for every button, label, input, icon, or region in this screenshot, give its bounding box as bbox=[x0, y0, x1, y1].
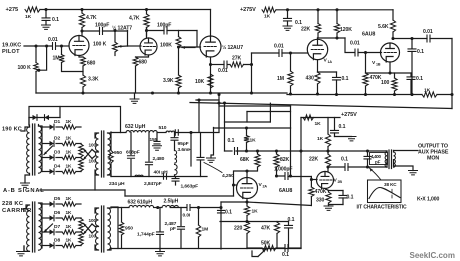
svg-text:4,250: 4,250 bbox=[222, 173, 234, 179]
svg-text:1B: 1B bbox=[376, 63, 381, 67]
wire drop to V2A input bbox=[224, 103, 226, 151]
wire plate V2A bbox=[245, 169, 248, 177]
wire row D6 bbox=[42, 217, 81, 219]
resistor R4 1M grid bbox=[53, 46, 84, 72]
triode V2 second pilot amp bbox=[140, 38, 157, 55]
junction plate node stage1 bbox=[80, 29, 83, 32]
junction bbox=[256, 149, 259, 152]
junction bbox=[156, 206, 159, 209]
resistor 1K row D1 bbox=[62, 119, 76, 129]
resistor R25 68K bbox=[240, 151, 260, 167]
junction bbox=[450, 93, 453, 96]
resistor R17 1M grid V1A bbox=[277, 53, 293, 94]
capacitor 4250pF bbox=[197, 133, 234, 180]
wire cathode V2A bbox=[246, 199, 248, 207]
svg-text:0.01: 0.01 bbox=[350, 41, 360, 47]
resistor R2 4.7K plate load bbox=[79, 10, 96, 37]
svg-text:0.01: 0.01 bbox=[48, 37, 58, 43]
resistor 1K row D4 bbox=[62, 164, 76, 174]
svg-text:4.7K: 4.7K bbox=[86, 15, 97, 21]
svg-text:95pF: 95pF bbox=[178, 141, 189, 147]
resistor 1K row D3 bbox=[62, 150, 76, 160]
junction plate node stage2 bbox=[145, 29, 148, 32]
resistor 1K row D2 bbox=[62, 136, 76, 146]
wire output top line bbox=[301, 150, 386, 152]
annotation 1/T label bbox=[357, 205, 408, 211]
ground bbox=[324, 205, 333, 211]
wire drop x191 bbox=[190, 133, 192, 167]
junction bbox=[286, 8, 289, 11]
wire long return line bbox=[190, 103, 452, 109]
ground bbox=[17, 252, 26, 256]
svg-text:632 UμH: 632 UμH bbox=[125, 124, 146, 130]
capacitor C8 0.01 coupling bbox=[350, 41, 360, 57]
capacitor C14 0.1 coupling bbox=[228, 138, 238, 155]
junction bbox=[366, 149, 369, 152]
triode V3 cathode follower bbox=[200, 36, 221, 57]
capacitor C1 0.1 B+ bypass bbox=[42, 10, 59, 26]
annotation peak mark bbox=[391, 189, 393, 198]
svg-text:5.6K: 5.6K bbox=[378, 24, 389, 30]
wire V2A input line bbox=[225, 150, 233, 152]
svg-text:608pF: 608pF bbox=[126, 150, 140, 156]
svg-text:22K: 22K bbox=[309, 157, 319, 163]
svg-text:47K: 47K bbox=[261, 226, 271, 232]
wire row D3 bbox=[42, 157, 81, 159]
wire bus drop to filter bbox=[218, 95, 220, 133]
svg-text:3.9K: 3.9K bbox=[163, 78, 174, 84]
svg-text:3.3K: 3.3K bbox=[88, 77, 99, 83]
svg-text:D3: D3 bbox=[54, 150, 60, 156]
capacitor 2480 bbox=[146, 133, 165, 177]
junction bbox=[223, 101, 226, 104]
resistor R13 27K bbox=[230, 56, 244, 68]
wire after cap bbox=[191, 207, 221, 209]
wire to riser bbox=[288, 247, 301, 249]
center tap arrow bbox=[44, 146, 53, 155]
resistor R28 220 bbox=[234, 222, 250, 234]
resistor R12 10K cathode bbox=[195, 74, 213, 88]
junction plate node V1B bbox=[391, 37, 394, 40]
svg-text:22K: 22K bbox=[301, 27, 311, 33]
capacitor 95pF bbox=[171, 133, 189, 148]
svg-text:0.1: 0.1 bbox=[52, 17, 59, 23]
svg-text:510: 510 bbox=[159, 125, 167, 131]
svg-text:K•X 1,000: K•X 1,000 bbox=[417, 197, 440, 203]
wire cathode node right bbox=[247, 221, 289, 223]
wire cathode V1A bbox=[317, 60, 319, 72]
wire C11 to right edge bbox=[430, 39, 452, 95]
tube label 6AU8 lower bbox=[279, 188, 292, 194]
wire left tie bbox=[117, 208, 119, 249]
transformer T4 secondary bbox=[108, 208, 111, 250]
transformer T3 core bbox=[33, 202, 35, 252]
wire wiper junction2 bbox=[92, 224, 95, 233]
wire plate V1A up bbox=[318, 38, 346, 39]
svg-text:1,663pF: 1,663pF bbox=[181, 184, 199, 190]
svg-text:27K: 27K bbox=[232, 56, 242, 62]
resistor R27 1K cathode bbox=[244, 206, 258, 216]
triode V1 first pilot amp bbox=[69, 36, 89, 56]
svg-text:470K: 470K bbox=[315, 189, 327, 195]
wire filter1 ground line bbox=[111, 176, 207, 178]
svg-text:1,744pF: 1,744pF bbox=[137, 232, 155, 238]
wire riser x221 bbox=[220, 202, 222, 249]
wire pilot input bbox=[24, 45, 52, 47]
wiper arrow 50K bbox=[252, 250, 266, 257]
resistor R31 1K supply V2B bbox=[317, 118, 331, 152]
svg-text:0.01: 0.01 bbox=[218, 68, 228, 74]
tube label V1B bbox=[372, 60, 381, 67]
svg-text:1M: 1M bbox=[202, 227, 209, 233]
diode D7 bbox=[50, 224, 61, 235]
wire cathode node bbox=[366, 72, 412, 74]
capacitor C7 0.01 coupling to V1A bbox=[274, 44, 284, 57]
junction bbox=[335, 93, 338, 96]
junction bbox=[197, 206, 200, 209]
junction bbox=[316, 92, 319, 95]
svg-text:0.1: 0.1 bbox=[228, 138, 235, 144]
svg-text:470K: 470K bbox=[370, 75, 382, 81]
resistor R32 22K plate V2B bbox=[309, 151, 331, 167]
node 190KC label bbox=[2, 127, 22, 133]
capacitor C4 100pF feedback bbox=[157, 23, 171, 35]
transformer T5 secondary bbox=[394, 151, 396, 168]
wire up to V1A grid line bbox=[252, 53, 280, 65]
wire plate to C2 bbox=[82, 30, 100, 32]
wire C15 to V2B grid bbox=[288, 177, 311, 180]
svg-text:120K: 120K bbox=[340, 27, 352, 33]
capacitor C13 0.1 mid bypass bbox=[331, 118, 352, 137]
capacitor 2487pF bbox=[165, 208, 185, 249]
wire carrier input bbox=[22, 205, 30, 209]
wire corner down to grid V3 bbox=[160, 31, 201, 49]
wire top B+ rail right bbox=[276, 9, 393, 11]
svg-text:19.0KC: 19.0KC bbox=[2, 43, 21, 49]
pentode V2B bbox=[317, 172, 334, 189]
wire cathode V2 bbox=[136, 55, 149, 93]
capacitor C15 1000pF coupling bbox=[274, 167, 292, 180]
svg-text:D6: D6 bbox=[54, 210, 60, 216]
wire mid B+ rail bbox=[301, 117, 340, 119]
transformer T2 secondary bbox=[108, 133, 111, 175]
svg-text:100K: 100K bbox=[160, 43, 172, 49]
svg-text:82K: 82K bbox=[280, 157, 290, 163]
inductor 234uH bbox=[109, 175, 143, 187]
svg-text:MON: MON bbox=[427, 156, 439, 162]
junction bbox=[60, 44, 63, 47]
tube label V2B bbox=[334, 178, 343, 185]
transformer T3 secondary bbox=[39, 203, 42, 250]
wire C4 to corner bbox=[167, 30, 197, 32]
capacitor C11 0.01 output coupling bbox=[423, 29, 433, 42]
junction plate node V2B bbox=[326, 165, 329, 168]
wire row D7 bbox=[42, 231, 81, 233]
wiper arrow bbox=[37, 44, 48, 71]
wire C7 to grid V1A bbox=[282, 52, 308, 54]
wire signal line to V2A grid bbox=[125, 190, 234, 196]
svg-text:632 610μH: 632 610μH bbox=[128, 200, 153, 206]
wire output lead bbox=[394, 150, 419, 152]
wire step connector 2 bbox=[225, 103, 291, 122]
svg-text:950: 950 bbox=[114, 150, 122, 156]
svg-text:1,000pF: 1,000pF bbox=[274, 167, 292, 173]
resistor 950 shunt bbox=[109, 133, 123, 177]
junction bbox=[245, 220, 248, 223]
svg-text:2,480: 2,480 bbox=[153, 156, 165, 162]
node +275V mid label bbox=[341, 112, 357, 118]
junction bbox=[81, 91, 84, 94]
junction bbox=[410, 93, 413, 96]
junction bbox=[151, 91, 154, 94]
svg-text:D5: D5 bbox=[54, 196, 60, 202]
wire carrier to V2B bbox=[247, 202, 311, 206]
svg-text:1K: 1K bbox=[66, 224, 73, 229]
resistor 1K row D6 bbox=[62, 210, 76, 220]
resistor R1 1K B+ feed bbox=[25, 7, 40, 20]
capacitor C10 0.1 to bus bbox=[408, 39, 424, 95]
svg-text:SeekIC.com: SeekIC.com bbox=[410, 251, 455, 260]
svg-text:0.01: 0.01 bbox=[274, 44, 284, 50]
wire secondary bus bbox=[41, 127, 43, 172]
wire secondary bus2 bbox=[39, 203, 43, 248]
junction bbox=[299, 149, 302, 152]
junction bbox=[217, 93, 220, 96]
svg-text:2B: 2B bbox=[338, 180, 343, 184]
svg-text:1K: 1K bbox=[66, 164, 73, 169]
wire bbox=[246, 216, 248, 222]
junction bbox=[34, 44, 37, 47]
wire to grid of V2 bbox=[128, 45, 142, 47]
ground arrow demod2 bbox=[44, 224, 53, 232]
inductor 510 series bbox=[159, 125, 175, 132]
svg-text:1K: 1K bbox=[424, 88, 431, 94]
capacitor filter 155 bbox=[150, 133, 161, 144]
svg-text:1K: 1K bbox=[317, 136, 324, 142]
potentiometer R3 100K gain bbox=[93, 31, 117, 56]
capacitor 608pF bbox=[126, 133, 140, 177]
wire bus to right edge corner bbox=[437, 95, 452, 109]
potentiometer 100 upper bbox=[79, 143, 97, 158]
value box 4400pF bbox=[370, 153, 388, 165]
potentiometer 100 upper2 bbox=[79, 218, 97, 232]
resistor R20 470K bbox=[363, 73, 382, 95]
tube label V1A bbox=[324, 58, 333, 65]
wire grid resistor drop bbox=[365, 53, 367, 74]
wire upper step line bbox=[196, 98, 219, 132]
wire supply line corner down bbox=[211, 128, 214, 159]
wire secondary taps bbox=[39, 126, 43, 127]
resistor R8 4.7K plate load bbox=[129, 10, 149, 37]
resistor R34 330 cathode bbox=[316, 191, 331, 205]
potentiometer R9 100K bbox=[176, 37, 195, 50]
wire carrier filter line bbox=[111, 207, 186, 209]
wire node line bbox=[236, 150, 301, 152]
transformer T2 primary bbox=[95, 133, 99, 175]
junction bbox=[289, 51, 292, 54]
resistor R18 430 cathode bbox=[306, 72, 321, 94]
junction bbox=[145, 8, 148, 11]
wire bbox=[246, 234, 248, 249]
tube label 6AU8 bbox=[362, 32, 375, 38]
svg-text:50K: 50K bbox=[261, 241, 271, 247]
inductor L2 632 610uH bbox=[128, 200, 154, 208]
node OUTPUT label bbox=[418, 144, 449, 162]
wire supply drop long bbox=[290, 128, 292, 176]
capacitor C12 0.1 cathode bbox=[407, 73, 423, 95]
wire primary bottom bbox=[25, 175, 30, 183]
wire row D4 bbox=[42, 171, 81, 173]
wire step connector bbox=[219, 106, 291, 128]
diode D5 bbox=[50, 196, 61, 207]
capacitor C5 0.01 coupling bbox=[218, 61, 228, 74]
node +275V supply label right bbox=[240, 7, 256, 13]
junction bbox=[189, 131, 192, 134]
resistor R14 1K B+ feed bbox=[262, 7, 276, 19]
svg-text:4,7K: 4,7K bbox=[129, 16, 140, 22]
wire coupling line bbox=[277, 175, 285, 177]
capacitor C 0.01 series bbox=[183, 205, 191, 219]
svg-text:1K: 1K bbox=[66, 210, 73, 215]
wire top B+ rail bbox=[40, 9, 211, 11]
capacitor C18 0.1 output coupling bbox=[341, 157, 348, 171]
wire wiper junction bbox=[92, 150, 95, 159]
svg-text:0.1: 0.1 bbox=[295, 20, 302, 26]
diode D2 bbox=[50, 136, 61, 147]
resistor R10 680 cathode V2 bbox=[133, 57, 147, 66]
ground bus symbol bbox=[130, 93, 139, 103]
wire V2 supply line bbox=[214, 127, 291, 129]
ground bbox=[409, 171, 418, 175]
junction bbox=[245, 200, 248, 203]
annotation arrow to cap bbox=[370, 168, 382, 180]
transformer T4 core bbox=[102, 206, 104, 252]
wire T4 secondary top bbox=[108, 207, 119, 208]
junction bbox=[209, 63, 212, 66]
wire C2 to corner bbox=[103, 30, 128, 32]
node 228KC CARRIER label bbox=[2, 201, 32, 214]
wire cathode V3 bbox=[210, 57, 212, 93]
capacitor C19 4400pF tuned bbox=[364, 151, 371, 167]
transformer T4 primary bbox=[95, 208, 99, 250]
wire ground bus bbox=[36, 93, 422, 95]
wire plate to C18 bbox=[328, 166, 344, 168]
inductor L3 2.51uH bbox=[162, 199, 179, 208]
svg-text:228 KC: 228 KC bbox=[2, 201, 23, 207]
diode D4 bbox=[50, 164, 61, 175]
junction bbox=[44, 8, 47, 11]
junction bbox=[177, 45, 180, 48]
junction bbox=[245, 126, 248, 129]
node +275 supply label bbox=[6, 7, 19, 13]
svg-text:1M: 1M bbox=[277, 76, 284, 82]
wire C18 to transformer bbox=[348, 166, 386, 168]
junction bbox=[388, 71, 391, 74]
svg-text:68K: 68K bbox=[240, 157, 250, 163]
potentiometer R5 100K pilot level bbox=[18, 46, 39, 93]
wire grid entry V2B bbox=[310, 178, 317, 181]
svg-text:190 KC: 190 KC bbox=[2, 127, 22, 133]
svg-text:D8: D8 bbox=[54, 238, 60, 244]
resistor R23 1K mid rail bbox=[303, 115, 321, 127]
svg-text:½ 12AU7: ½ 12AU7 bbox=[222, 44, 243, 51]
svg-text:100pF: 100pF bbox=[157, 23, 171, 29]
transformer T5 output core bbox=[389, 150, 392, 169]
ground bbox=[21, 183, 30, 187]
inductor 401uH bbox=[154, 165, 178, 177]
transformer T3 primary bbox=[27, 205, 30, 251]
ground bbox=[153, 146, 162, 150]
wire T2 secondary bottom bbox=[108, 175, 112, 176]
wiper arrow R3 bbox=[119, 45, 128, 48]
svg-text:100 K: 100 K bbox=[18, 65, 32, 71]
junction bbox=[217, 101, 220, 104]
svg-text:330: 330 bbox=[316, 198, 325, 204]
svg-text:100pF: 100pF bbox=[95, 23, 109, 29]
resistor R6 680 cathode bbox=[81, 57, 96, 67]
wire C3 to grid V1 bbox=[56, 45, 69, 47]
svg-text:D1: D1 bbox=[54, 119, 60, 125]
resistor R19 5.6K plate load V1B bbox=[378, 10, 396, 39]
svg-text:1K: 1K bbox=[264, 14, 271, 20]
svg-text:0.0I: 0.0I bbox=[183, 213, 191, 219]
wire filter1 line bbox=[111, 132, 219, 134]
potentiometer R30 50K bbox=[261, 241, 276, 251]
svg-text:D7: D7 bbox=[54, 224, 60, 230]
resistor 1M shunt bbox=[196, 208, 208, 249]
node 19.0KC PILOT input bbox=[2, 43, 21, 56]
svg-text:1K: 1K bbox=[66, 150, 73, 155]
svg-text:+275V: +275V bbox=[240, 7, 256, 13]
svg-text:234 μH: 234 μH bbox=[109, 181, 125, 187]
svg-text:1K: 1K bbox=[66, 119, 73, 124]
svg-text:6AU8: 6AU8 bbox=[279, 188, 292, 194]
ground bbox=[347, 137, 356, 141]
svg-text:38 KC: 38 KC bbox=[384, 182, 397, 187]
wire row D8 bbox=[42, 245, 81, 247]
capacitor C3 0.01 input coupling bbox=[48, 37, 58, 50]
annotation 38KC bbox=[384, 182, 397, 187]
svg-text:0.01: 0.01 bbox=[423, 29, 433, 35]
svg-text:2,847pF: 2,847pF bbox=[144, 181, 162, 187]
resistor 1K row D7 bbox=[62, 224, 76, 234]
junction bbox=[177, 91, 180, 94]
svg-text:10K: 10K bbox=[195, 79, 205, 85]
wire diode pair line bbox=[29, 107, 60, 126]
svg-text:A-B SIGNAL: A-B SIGNAL bbox=[3, 188, 45, 194]
inductor L1 632uH bbox=[125, 124, 157, 133]
wire carrier tie lower bbox=[220, 221, 247, 223]
junction bbox=[289, 174, 292, 177]
svg-text:1A: 1A bbox=[328, 60, 333, 64]
svg-text:3.6mH: 3.6mH bbox=[178, 147, 193, 153]
svg-text:I/T CHARACTERISTIC: I/T CHARACTERISTIC bbox=[357, 205, 408, 211]
resistor R11 3.9K bbox=[163, 49, 181, 94]
capacitor C2 100pF feedback bbox=[95, 23, 109, 35]
ground bbox=[207, 158, 216, 162]
junction bbox=[326, 149, 329, 152]
wire row D5 bbox=[42, 203, 81, 205]
wire cathode V1 bbox=[79, 56, 83, 58]
resistor R15 22K plate load V1A bbox=[301, 10, 321, 38]
wire plate node right bbox=[393, 38, 427, 40]
wiper arrows crossing bbox=[84, 149, 93, 160]
capacitor 0.1 on riser bbox=[218, 210, 233, 216]
wire plate2 to C4 bbox=[147, 28, 165, 39]
ground bbox=[42, 25, 51, 29]
diode D8 bbox=[50, 238, 61, 249]
svg-text:pF: pF bbox=[170, 226, 176, 232]
